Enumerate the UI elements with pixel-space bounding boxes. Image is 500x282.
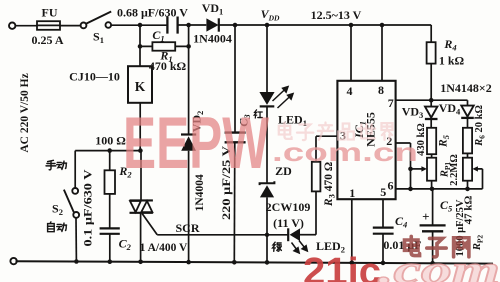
wire: R2 to C2	[109, 194, 111, 229]
junction dot bottom rail C5	[430, 261, 435, 266]
svg-text:R6 20 kΩ: R6 20 kΩ	[474, 105, 487, 147]
wire: pin1 to bottom rail	[351, 199, 353, 263]
wire: R3 upper leg to pin3	[316, 136, 337, 162]
diode VD1 triangle	[206, 18, 218, 31]
resistor R5 430k box	[427, 128, 436, 154]
thyristor SCR left triangle	[130, 201, 141, 212]
svg-text:4: 4	[347, 84, 353, 98]
svg-text:1N4148×2: 1N4148×2	[440, 81, 492, 95]
diode VD2 1N4004 cathode bar	[181, 133, 196, 135]
wire: C4 to bottom rail	[382, 234, 384, 263]
capacitor C4 0.01uF plates	[373, 228, 394, 234]
diode VD4 cathode bar	[461, 117, 474, 119]
svg-text:7: 7	[388, 96, 394, 110]
junction dot top rail at VD2	[186, 23, 191, 28]
wire: RP1 bottom to pin6 line	[431, 181, 433, 189]
resistor R1 470k box	[152, 42, 175, 51]
junction dot bottom rail pin1	[350, 261, 355, 266]
contactor coil K (CJ10-10) box	[128, 66, 152, 103]
wire: VD2 branch (from R1 node down to bottom rail)	[188, 46, 190, 262]
wire: VD4 corner drop	[467, 100, 469, 106]
thyristor SCR symbol bars	[130, 200, 153, 212]
LED2 triangle	[290, 228, 300, 241]
svg-text:12.5~13 V: 12.5~13 V	[311, 8, 362, 22]
wire: RP2 wiper arm	[475, 169, 483, 189]
svg-text:2.2MΩ: 2.2MΩ	[449, 154, 460, 185]
input terminal bottom circle	[10, 258, 16, 264]
wire: SCR cathode to bottom rail	[140, 213, 142, 262]
IC U1 NE555 box	[337, 81, 395, 199]
RP2 wiper arrowhead	[472, 166, 478, 171]
wire: C1 to VD1	[178, 24, 207, 26]
switch S2 bottom contact	[73, 212, 79, 218]
wire: pin7 line to VD3/VD4	[396, 99, 468, 101]
wire: LED1 to zener ZD	[266, 106, 268, 183]
wire: R1 C1 parallel left leg	[140, 25, 152, 46]
svg-text:21ic: 21ic	[303, 251, 381, 282]
wire: RP1 wiper arm	[411, 168, 425, 170]
wire: RP2 bottom leg	[467, 181, 469, 189]
junction dot gate line at zener column	[265, 233, 269, 237]
switch S2 blade	[64, 190, 74, 213]
svg-text:.com.cn: .com.cn	[272, 137, 418, 167]
junction dot R1 left	[138, 44, 143, 49]
svg-text:.com: .com	[378, 247, 500, 282]
switch S2 top contact	[72, 188, 78, 194]
wire: R6 to RP2	[467, 153, 469, 157]
switch S1 left contact	[81, 23, 87, 29]
wire: node line y=150.6	[75, 150, 141, 152]
wire: LED2 anode to R3 bend	[300, 234, 316, 236]
diode VD2 triangle	[181, 136, 196, 151]
junction dot bottom rail C4	[381, 261, 386, 266]
junction dot top rail at pin8	[380, 23, 385, 28]
wire: pin2 line	[396, 143, 411, 189]
svg-text:8: 8	[378, 83, 384, 97]
resistor R6 20k box	[463, 128, 472, 154]
LED1 emission arrow 2	[278, 94, 294, 108]
svg-text:5: 5	[380, 185, 386, 199]
junction dot bottom rail S2	[74, 259, 79, 264]
capacitor C1 0.68uF/630V plates	[167, 17, 177, 34]
wire: C5 to bottom rail	[432, 231, 434, 263]
input terminal top circle	[9, 23, 15, 29]
junction dot pin6 line at pin2 drop	[408, 187, 413, 192]
LED1 cathode bar	[260, 105, 275, 107]
zener ZD 2CW109 cathode bar with hooks	[260, 181, 275, 185]
svg-text:100 Ω: 100 Ω	[95, 133, 126, 147]
junction dot pin2 drop at RP1 wiper	[408, 167, 413, 172]
switch S1 blade	[86, 12, 111, 24]
capacitor C2 0.1uF/630V plates	[100, 228, 120, 233]
wire: S1 to C1, junction at x=140	[111, 24, 167, 26]
wire: S2 lower leg to bottom rail	[75, 218, 77, 262]
wire: R3 lower leg	[315, 191, 317, 234]
LED2 cathode bar	[287, 228, 289, 241]
svg-text:EEPW: EEPW	[123, 103, 269, 184]
junction dot pin6 line at RP1/C5	[430, 187, 435, 192]
junction dot pin7 at R4	[429, 98, 434, 103]
junction dot node R2 top	[107, 148, 112, 153]
wire: top rail left segment from input terminal to fuse	[15, 25, 37, 27]
svg-text:1: 1	[349, 186, 355, 200]
svg-text:SCR: SCR	[175, 221, 199, 235]
wire: gate trigger line to zener/LED2 node	[157, 234, 288, 236]
LED2 emission arrow 1	[292, 243, 300, 254]
watermark 电子网	[405, 236, 420, 255]
wire: pin8 to rail	[381, 25, 383, 81]
junction dot pin6 line at RP2	[465, 187, 470, 192]
wire: pin4 to rail	[350, 25, 352, 81]
wire: pin6 line	[396, 188, 483, 190]
svg-text:1N4004: 1N4004	[193, 31, 232, 45]
junction dot top rail at C3	[233, 23, 238, 28]
svg-text:AC 220 V/50 Hz: AC 220 V/50 Hz	[19, 73, 31, 152]
svg-text:6: 6	[388, 179, 394, 193]
junction dot R1 right	[186, 44, 191, 49]
wire: VD4 to R6	[467, 118, 469, 128]
svg-text:FU: FU	[42, 6, 58, 20]
diode VD4 triangle	[461, 106, 473, 117]
LED2 emission arrow 2	[299, 241, 307, 252]
svg-text:(11 V): (11 V)	[273, 216, 304, 230]
svg-text:1 A/400 V: 1 A/400 V	[140, 242, 188, 254]
resistor R4 1k box	[427, 42, 436, 63]
fuse FU 0.25A	[37, 21, 60, 30]
wire: rail corner into R4	[430, 25, 432, 42]
wire: pin5 to C4	[382, 199, 384, 227]
RP1 wiper arrowhead	[421, 166, 427, 171]
wire: VD1 to R4 corner, V_DD rail	[219, 24, 431, 26]
thyristor SCR right triangle	[141, 201, 152, 212]
wire: down to contactor coil K	[139, 46, 141, 66]
LED1 triangle	[259, 92, 274, 105]
diode VD1 1N4004 cathode bar	[218, 18, 220, 31]
resistor R2 100ohm box	[105, 170, 116, 194]
svg-text:R3 470 Ω: R3 470 Ω	[323, 162, 337, 207]
potentiometer RP1 2.2M box	[427, 158, 436, 181]
junction dot bottom rail SCR	[138, 260, 143, 265]
wire: fuse to switch S1	[60, 25, 81, 27]
wire: C2 to bottom rail	[109, 234, 111, 262]
junction dot top rail at LED column	[265, 23, 270, 28]
svg-text:0.1 μF/630 V: 0.1 μF/630 V	[83, 169, 95, 247]
wire: VD3 leads	[430, 100, 432, 128]
label 绿 (green)	[273, 242, 282, 251]
wire: R1 right leg up to rail	[175, 25, 188, 46]
watermark 电子产品世界	[279, 123, 292, 139]
svg-text:2CW109: 2CW109	[266, 200, 311, 214]
junction dot bottom rail C2	[108, 259, 113, 264]
wire: LED1/ZD column upper	[266, 25, 268, 92]
zener ZD triangle	[260, 185, 274, 197]
svg-text:CJ10—10: CJ10—10	[69, 69, 120, 83]
junction dot bottom rail zener	[265, 260, 270, 265]
wire: R4 to pin7 junction	[430, 64, 432, 101]
wire: C3 to bottom rail	[233, 142, 236, 262]
wire: SCR gate lead	[142, 214, 157, 235]
wire: S2 upper leg	[74, 151, 76, 188]
capacitor C5 1000uF plates	[420, 225, 446, 231]
switch S1 right contact	[106, 22, 112, 28]
svg-text:0.25 A: 0.25 A	[31, 33, 63, 47]
wire: C3 branch upper	[234, 25, 236, 132]
junction dot node SCR top	[138, 148, 143, 153]
wire: SCR anode leg	[140, 151, 142, 201]
junction dot bottom rail C3	[232, 260, 237, 265]
svg-text:K: K	[135, 79, 146, 94]
resistor R3 470ohm box	[312, 162, 321, 192]
label 手动 (manual)	[46, 160, 56, 169]
label 红 (red)	[254, 110, 262, 118]
LED1 emission arrow 1	[273, 87, 289, 101]
svg-text:0.68 μF/630 V: 0.68 μF/630 V	[117, 6, 188, 20]
wire: ZD to bottom rail through gate node	[266, 197, 268, 262]
capacitor C3 220uF/25V plates	[225, 133, 246, 143]
junction dot top rail at C1/R1 left	[138, 23, 143, 28]
label 自动 (auto)	[48, 222, 55, 232]
junction dot top rail at pin4	[349, 23, 354, 28]
svg-text:1 kΩ: 1 kΩ	[439, 54, 465, 68]
wire: bottom rail	[16, 261, 494, 263]
diode VD3 cathode bar	[425, 118, 438, 120]
diode VD3 triangle	[425, 107, 437, 118]
potentiometer RP2 47k box	[463, 158, 472, 181]
wire: R2 branch upper leg	[109, 151, 111, 171]
wire: C5 upper leg	[432, 189, 434, 225]
svg-text:+: +	[422, 209, 429, 224]
svg-text:470 kΩ: 470 kΩ	[149, 59, 187, 73]
junction dot bottom rail VD2	[186, 260, 191, 265]
wire: K to SCR node	[139, 103, 141, 151]
wire: R5 to RP1	[431, 154, 433, 158]
